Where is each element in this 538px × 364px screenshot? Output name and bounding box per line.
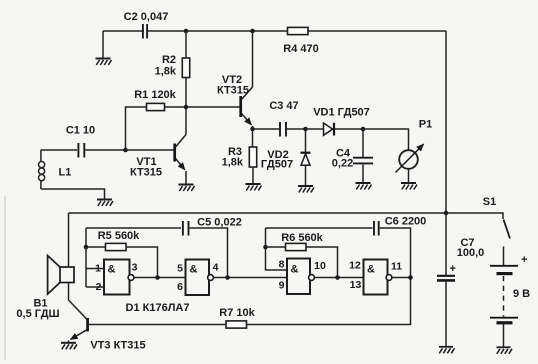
svg-text:&: &	[190, 264, 198, 276]
gate D1.3	[287, 259, 314, 295]
svg-text:VD1 ГД507: VD1 ГД507	[313, 107, 370, 119]
svg-text:P1: P1	[419, 119, 432, 131]
svg-text:ГД507: ГД507	[261, 159, 293, 171]
svg-text:+: +	[450, 263, 456, 275]
wire P1 top lead	[363, 129, 409, 150]
wire pin2 stub	[86, 286, 104, 288]
svg-text:&: &	[291, 264, 299, 276]
svg-text:R6 560k: R6 560k	[281, 232, 323, 244]
node top junction VT2 collector	[250, 29, 255, 34]
svg-text:C3 47: C3 47	[269, 100, 298, 112]
resistor R6	[286, 243, 307, 250]
svg-text:C1 10: C1 10	[66, 125, 95, 137]
resistor R5	[106, 243, 127, 250]
wire C1 left lead	[41, 149, 77, 151]
wire C7 bottom lead	[445, 282, 447, 347]
ground (L1)	[97, 200, 113, 207]
wire R5 left lead	[86, 246, 106, 248]
svg-text:100,0: 100,0	[457, 247, 485, 259]
svg-text:2: 2	[96, 281, 102, 293]
svg-text:VT3 КТ315: VT3 КТ315	[90, 340, 145, 352]
svg-text:6: 6	[177, 281, 183, 293]
svg-text:1: 1	[95, 263, 101, 275]
resistor R1	[147, 103, 165, 110]
wire battery top lead	[503, 247, 505, 266]
svg-text:&: &	[367, 264, 375, 276]
resistor R4	[288, 27, 309, 34]
svg-text:9: 9	[279, 280, 285, 292]
meter P1	[396, 144, 424, 172]
wire VT3 base / R7 line	[89, 324, 226, 326]
capacitor C7	[437, 276, 455, 281]
svg-text:C6 2200: C6 2200	[385, 216, 427, 228]
switch S1	[446, 213, 510, 239]
svg-text:11: 11	[391, 261, 402, 273]
svg-text:3: 3	[132, 262, 138, 274]
ground (C7)	[439, 347, 455, 354]
wire gate4 out	[392, 277, 411, 279]
wire battery dashed middle	[503, 276, 505, 317]
gate D1.4	[364, 260, 392, 295]
capacitor C6	[374, 220, 379, 236]
capacitor C5	[183, 220, 189, 236]
wire top rail	[103, 30, 446, 32]
resistor R7	[226, 321, 247, 328]
wire C1 right lead	[85, 149, 125, 151]
svg-text:+: +	[521, 254, 527, 266]
svg-text:R7 10k: R7 10k	[219, 307, 255, 319]
svg-text:1,8k: 1,8k	[222, 157, 244, 169]
wire C4 bottom lead	[362, 165, 364, 183]
ground (C2 left)	[96, 59, 112, 66]
svg-text:1,8k: 1,8k	[155, 66, 177, 78]
wire R2 top lead	[185, 31, 187, 58]
gate D1.2	[186, 260, 214, 296]
node gate4 out / C6 / R7	[408, 275, 413, 280]
wire C6 right lead down	[380, 228, 411, 278]
svg-text:R5 560k: R5 560k	[98, 230, 140, 242]
wire R6 left lead	[266, 246, 286, 248]
battery GB1 cell 2	[490, 318, 518, 323]
svg-text:13: 13	[350, 279, 362, 291]
node gate3 out / R6	[335, 275, 340, 280]
wire gate1 out to gate2	[134, 277, 186, 279]
svg-text:R1 120k: R1 120k	[134, 89, 176, 101]
capacitor C1	[78, 142, 84, 158]
speaker B1	[48, 256, 74, 294]
ground (VD2)	[298, 186, 314, 193]
wire C3 left lead	[253, 128, 280, 130]
node gate2 out / C5	[225, 275, 230, 280]
svg-text:C5 0,022: C5 0,022	[197, 217, 242, 229]
svg-text:0,5 ГДШ: 0,5 ГДШ	[16, 308, 59, 320]
capacitor C4	[353, 158, 373, 164]
node rail/S1/C7	[444, 211, 449, 216]
node C1-R1-base	[123, 148, 128, 153]
wire power rail bottom	[69, 212, 447, 214]
wire R2 bottom lead	[185, 78, 187, 108]
wire speaker bottom lead	[68, 283, 70, 301]
ground (R3)	[246, 184, 262, 191]
wire R7 right lead up to pin11	[247, 278, 411, 325]
svg-text:D1 К176ЛА7: D1 К176ЛА7	[126, 302, 190, 314]
ground (VT1 emitter)	[179, 185, 195, 192]
wire R3 top lead	[252, 129, 254, 147]
node C3/VD1/VD2	[303, 127, 308, 132]
wire C5 link	[86, 227, 181, 229]
wire R3 bottom lead	[252, 167, 254, 184]
wire right bus	[445, 31, 447, 213]
svg-text:S1: S1	[483, 196, 496, 208]
wire gate3 pin8 vertical	[266, 228, 288, 270]
wire C7 top lead	[445, 213, 447, 275]
wire gate1 input vertical	[85, 228, 87, 287]
diode VD2	[301, 153, 311, 166]
wire C6 link	[266, 227, 373, 229]
resistor R3	[249, 147, 256, 167]
wire VT2 base	[186, 106, 240, 108]
svg-text:5: 5	[177, 263, 183, 275]
svg-text:R4 470: R4 470	[283, 43, 318, 55]
page edge scan line	[4, 196, 6, 360]
diode VD1	[324, 123, 335, 136]
node VD1/C4/P1	[361, 127, 366, 132]
ground (VT3 emitter)	[61, 343, 77, 350]
svg-text:R2: R2	[162, 54, 176, 66]
node R6/C6/pin8	[263, 245, 268, 250]
wire C4 top lead	[362, 129, 364, 157]
ground (battery)	[497, 347, 513, 354]
svg-text:9 В: 9 В	[513, 288, 530, 300]
transistor VT2	[241, 31, 253, 129]
wire R1 left lead down	[126, 107, 147, 150]
node R1-R2-VT2 base	[184, 105, 189, 110]
gate D1.1	[104, 260, 134, 295]
wire C3 right lead	[287, 128, 306, 130]
transistor VT3	[69, 300, 88, 343]
wire L1 bottom to ground	[41, 189, 105, 199]
ground (P1)	[401, 183, 417, 190]
svg-text:КТ315: КТ315	[130, 167, 162, 179]
node VT2 emitter / C3 / R3	[250, 127, 255, 132]
battery GB1 cell 1	[490, 266, 518, 274]
svg-text:C2 0,047: C2 0,047	[124, 11, 169, 23]
resistor R2	[182, 58, 189, 78]
svg-text:L1: L1	[59, 167, 72, 179]
wire top-left drop to ground	[102, 31, 104, 58]
svg-text:12: 12	[349, 260, 361, 272]
transistor VT1	[175, 107, 186, 184]
svg-text:0,22: 0,22	[332, 158, 353, 170]
wire R6 right lead down	[306, 247, 338, 278]
wire R1 right lead	[165, 106, 187, 108]
capacitor C3	[280, 121, 286, 137]
node top junction R2	[184, 29, 189, 34]
svg-text:4: 4	[213, 262, 219, 274]
svg-text:КТ315: КТ315	[217, 85, 249, 97]
node gate1 out / R5	[155, 275, 160, 280]
wire C5 right lead down	[190, 228, 228, 278]
node R5/C5/input	[84, 245, 89, 250]
svg-text:&: &	[108, 264, 116, 276]
wire VD2 branch	[305, 129, 307, 186]
inductor L1	[39, 150, 45, 189]
ground (C4)	[356, 183, 372, 190]
wire gate3 out to gate4	[315, 277, 364, 279]
wire battery bottom lead	[503, 324, 505, 347]
wire P1 bottom lead	[408, 169, 410, 183]
wire VT1 base	[126, 149, 175, 151]
wire pin1 stub	[86, 268, 104, 270]
wire R5 right lead down	[126, 247, 158, 278]
wire gate2 out to gate3	[214, 277, 288, 279]
wire speaker drop	[68, 213, 70, 267]
capacitor C2	[143, 23, 147, 39]
svg-text:10: 10	[314, 260, 326, 272]
svg-text:8: 8	[279, 259, 285, 271]
wire VD1 leads	[306, 128, 364, 130]
